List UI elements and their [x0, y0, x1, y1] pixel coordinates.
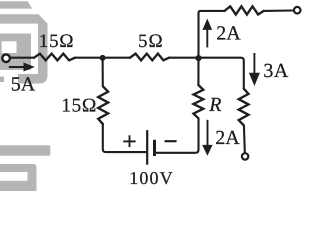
terminal bottom-right — [242, 153, 248, 159]
wire: R1 to node A — [75, 57, 130, 59]
svg-text:5A: 5A — [11, 73, 36, 95]
resistor R4 15ohm vertical — [98, 86, 108, 124]
arrow 2A up — [202, 19, 212, 48]
terminal top-right — [294, 7, 301, 14]
resistor R3 top horizontal — [225, 6, 264, 14]
resistor R1 15ohm horizontal — [34, 54, 75, 61]
label minus — [165, 140, 177, 142]
resistor R5 "R" vertical — [194, 85, 204, 118]
node B junction dot — [195, 55, 201, 61]
svg-text:15Ω: 15Ω — [39, 31, 75, 52]
wire: R6 to bottom-right terminal — [243, 125, 246, 152]
wire: left terminal to R1 — [11, 57, 34, 59]
wire: node A to node B to right corner, corner down — [169, 58, 244, 89]
node A junction dot — [100, 55, 106, 61]
wire: battery minus plate to corner under R5 — [156, 118, 199, 153]
label plus — [123, 135, 135, 147]
arrow 2A down bottom — [202, 120, 212, 156]
svg-text:R: R — [208, 94, 221, 116]
battery plate long (+) — [146, 130, 148, 165]
wire: R3 to top-right terminal — [264, 9, 293, 11]
svg-text:5Ω: 5Ω — [138, 31, 164, 52]
wire: R4 down and to battery plus plate — [103, 124, 146, 152]
battery plate short (-) — [153, 140, 156, 156]
wire: node B up to top rail — [199, 11, 225, 58]
terminal top-left — [2, 54, 10, 62]
watermark logo top-left — [0, 1, 48, 83]
svg-text:2A: 2A — [215, 127, 240, 149]
resistor R2 5ohm horizontal — [130, 54, 169, 61]
svg-text:3A: 3A — [263, 60, 289, 82]
svg-text:2A: 2A — [216, 22, 241, 44]
wire: node A down — [102, 58, 104, 86]
arrow 5A current — [9, 63, 35, 72]
watermark logo bottom-left — [0, 145, 50, 191]
arrow 3A down — [249, 53, 260, 86]
svg-text:15Ω: 15Ω — [61, 95, 97, 116]
resistor R6 right vertical — [239, 89, 249, 126]
svg-text:100V: 100V — [129, 168, 173, 188]
wire: node B down to R5 — [197, 58, 199, 85]
